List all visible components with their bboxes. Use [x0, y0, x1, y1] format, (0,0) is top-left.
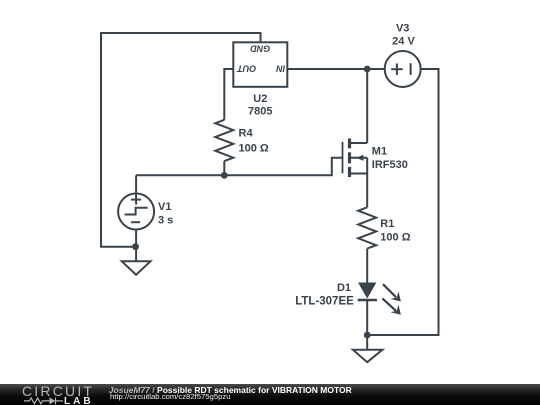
svg-text:V3: V3 — [396, 23, 409, 35]
svg-text:R4: R4 — [239, 128, 254, 140]
svg-text:D1: D1 — [337, 282, 351, 294]
svg-text:24 V: 24 V — [392, 36, 415, 48]
svg-text:100 Ω: 100 Ω — [380, 232, 410, 244]
svg-text:R1: R1 — [380, 218, 394, 230]
svg-text:100 Ω: 100 Ω — [239, 143, 269, 155]
svg-text:IRF530: IRF530 — [372, 159, 408, 171]
svg-text:GND: GND — [250, 43, 271, 53]
svg-text:M1: M1 — [372, 145, 387, 157]
svg-text:IN: IN — [276, 64, 286, 74]
svg-text:U2: U2 — [253, 93, 267, 105]
svg-text:7805: 7805 — [248, 106, 272, 118]
svg-text:3 s: 3 s — [158, 215, 173, 227]
svg-text:LTL-307EE: LTL-307EE — [295, 296, 354, 308]
svg-text:OUT: OUT — [236, 64, 257, 74]
svg-text:V1: V1 — [158, 201, 171, 213]
